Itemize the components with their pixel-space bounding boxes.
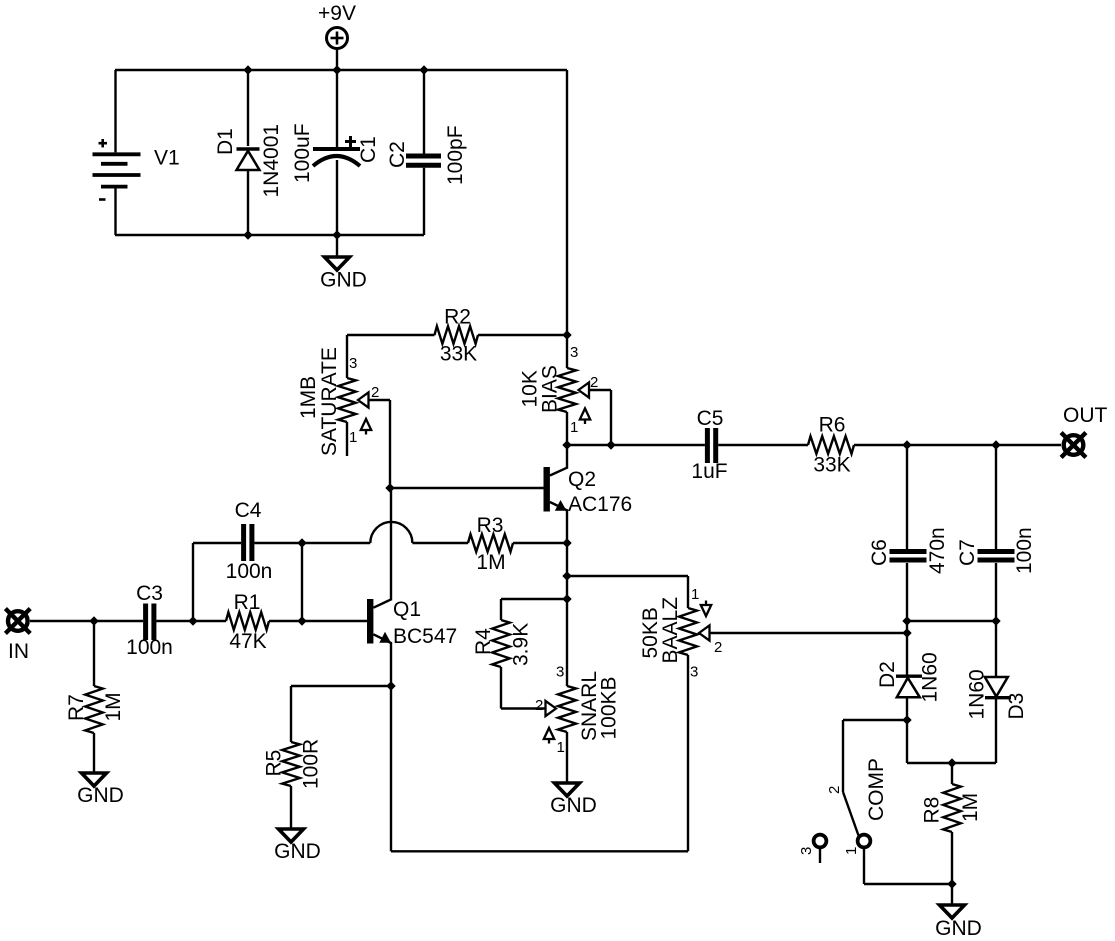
svg-text:100n: 100n (1013, 527, 1036, 574)
junction R1-Q1 base node (297, 616, 306, 625)
svg-text:3: 3 (349, 355, 357, 372)
wire R4 bottom (500, 667, 502, 709)
svg-text:100uF: 100uF (291, 123, 314, 183)
wire D1 bottom (247, 170, 249, 235)
resistor R4 3.9K (472, 620, 533, 667)
svg-text:1: 1 (843, 847, 860, 855)
port OUT (1061, 404, 1107, 457)
svg-text:1N60: 1N60 (919, 652, 942, 702)
capacitor C3 100n (126, 582, 173, 659)
junction C6-D2 node (902, 616, 911, 625)
resistor R2 33K (435, 306, 479, 366)
wire C2 bottom (423, 168, 425, 235)
wire R4 top (500, 599, 502, 620)
diode D3 1N60 (966, 669, 1029, 719)
pin 2 label BIAS (590, 374, 598, 391)
wire battery bottom (114, 189, 116, 236)
wire SATURATE wiper right (369, 399, 390, 401)
capacitor C7 100n (956, 527, 1036, 574)
switch COMP pin1 contact (858, 835, 871, 848)
svg-text:1M: 1M (476, 551, 505, 574)
junction emitter-BAALZ node (562, 571, 571, 580)
wire bottom feedback rail (391, 850, 688, 852)
svg-text:470n: 470n (926, 527, 949, 574)
resistor R8 1M (921, 784, 983, 832)
pin 2 label COMP (826, 786, 843, 794)
wiper arrow SATURATE (358, 392, 369, 407)
junction C7-D3 node (991, 616, 1000, 625)
wire R5 top (290, 686, 292, 742)
wire bottom rail (115, 234, 424, 236)
wire BIAS wiper right (589, 389, 612, 391)
wire IN to C3 (30, 620, 143, 622)
svg-text:1: 1 (570, 419, 578, 436)
junction top rail D1 (243, 65, 252, 74)
svg-text:33K: 33K (813, 454, 850, 477)
junction R8-switch node (947, 879, 956, 888)
junction C6 top node (902, 440, 911, 449)
wire BAALZ wiper right (710, 632, 907, 634)
wire switch pin2 from D2 node (843, 719, 907, 721)
svg-text:1: 1 (557, 739, 565, 756)
junction D2-switch node (902, 715, 911, 724)
svg-text:D1: D1 (214, 128, 237, 155)
transistor Q2 AC176 (544, 467, 633, 516)
wire BAALZ pin1 (687, 576, 689, 608)
wire D1 top (247, 70, 249, 146)
svg-text:COMP: COMP (865, 758, 888, 821)
wire R1-C4 vertical (301, 543, 303, 621)
wire R2 right (478, 334, 567, 336)
pin 2 label SNARL (535, 697, 543, 714)
svg-text:100pF: 100pF (444, 125, 467, 185)
wire +9V to top rail (336, 48, 338, 70)
svg-text:1: 1 (691, 586, 699, 603)
wire BAALZ pin3 down (687, 655, 689, 851)
wire Q1 collector up (390, 488, 392, 600)
wiper arrow BAALZ (699, 625, 710, 640)
direction arrow BAALZ (701, 601, 711, 617)
wire emitter node down (566, 543, 568, 686)
svg-text:GND: GND (77, 784, 124, 807)
direction arrow SNARL (544, 728, 554, 744)
wiper arrow SNARL (546, 701, 557, 716)
svg-text:D3: D3 (1005, 693, 1028, 720)
direction arrow BIAS (580, 409, 590, 425)
wire switch pin2 down (842, 720, 844, 792)
pin 1 label BAALZ (691, 586, 699, 603)
resistor R6 33K (808, 414, 854, 477)
wire node to C5 (567, 444, 705, 446)
svg-text:GND: GND (274, 840, 321, 863)
junction R2-BIAS node (562, 330, 571, 339)
svg-text:SATURATE: SATURATE (318, 347, 341, 456)
wire GND stub below rail (336, 235, 338, 257)
svg-text:2: 2 (535, 697, 543, 714)
resistor R5 100R (263, 739, 323, 789)
junction C3-C4 node (188, 616, 197, 625)
junction C4-R1 vertical top (297, 538, 306, 547)
wire C1 bottom (336, 160, 338, 235)
svg-text:GND: GND (935, 917, 982, 940)
svg-text:47K: 47K (229, 630, 266, 653)
junction top rail +9V (332, 65, 341, 74)
svg-text:2: 2 (826, 786, 843, 794)
wire C7 top (995, 445, 997, 549)
svg-text:C6: C6 (868, 539, 891, 566)
port IN (5, 609, 30, 663)
wire R3 right (513, 542, 567, 544)
wire switch pin1 down (863, 849, 865, 885)
junction bottom rail D1 (243, 230, 252, 239)
wire GND stub (R8) (951, 884, 953, 905)
svg-text:R7: R7 (65, 694, 88, 721)
wire C1 top (336, 70, 338, 147)
junction IN-R7 node (89, 616, 98, 625)
svg-text:C3: C3 (136, 582, 163, 605)
svg-text:+9V: +9V (318, 2, 356, 25)
wire right rail down to R2 node (566, 70, 568, 335)
junction Q2 base node (385, 483, 394, 492)
svg-text:C1: C1 (357, 136, 380, 163)
junction BIAS wiper node (606, 440, 615, 449)
wire Q2 base (390, 487, 544, 489)
ground GND (R8) (935, 905, 982, 940)
capacitor C2 100pF (386, 125, 467, 185)
svg-text:OUT: OUT (1063, 404, 1108, 427)
svg-text:C2: C2 (386, 141, 409, 168)
junction bottom rail C1 (332, 230, 341, 239)
svg-text:AC176: AC176 (568, 493, 632, 516)
svg-text:C7: C7 (956, 539, 979, 566)
capacitor C1 100uF (electrolytic) (291, 123, 380, 183)
svg-text:V1: V1 (154, 147, 180, 170)
wire to R4 (501, 598, 567, 600)
wire C2 top (423, 70, 425, 154)
wire to BAALZ top (567, 575, 688, 577)
wire battery top (114, 70, 116, 152)
wire D3 bottom (995, 699, 997, 763)
diode D2 1N60 (876, 652, 942, 702)
wire D2-D3 bottom link (907, 762, 996, 764)
wire switch pin1 to R8 node (864, 883, 952, 885)
svg-text:1M: 1M (959, 793, 982, 822)
svg-text:100R: 100R (300, 739, 323, 789)
junction Q1 emitter node (386, 681, 395, 690)
svg-text:R6: R6 (819, 414, 846, 437)
junction BAALZ wiper-D2 node (902, 628, 911, 637)
svg-text:R1: R1 (234, 591, 261, 614)
svg-text:R8: R8 (921, 797, 944, 824)
svg-text:IN: IN (8, 640, 29, 663)
ground GND (SNARL) (550, 783, 597, 817)
capacitor C5 1uF (691, 407, 727, 483)
junction R3-emitter node (562, 538, 571, 547)
junction R8 top node (947, 758, 956, 767)
svg-text:3: 3 (690, 664, 698, 681)
junction BIAS pin1 node (562, 440, 571, 449)
wire C6 bottom (906, 563, 908, 675)
potentiometer SNARL 100KB (558, 671, 621, 741)
svg-text:C4: C4 (235, 499, 262, 522)
pin 1 label BIAS (570, 419, 578, 436)
direction arrow SATURATE (361, 419, 371, 435)
wire BIAS wiper down (610, 390, 612, 445)
wire Q1 emitter down (390, 642, 392, 686)
svg-text:GND: GND (320, 269, 367, 292)
svg-text:Q2: Q2 (568, 468, 596, 491)
svg-text:2: 2 (371, 384, 379, 401)
wire R8 top (951, 763, 953, 784)
wire C5 to R6 (718, 444, 808, 446)
wire Q2 collector (566, 445, 568, 469)
wire Q2 emitter down (566, 509, 568, 543)
wire SATURATE pin3 (346, 335, 348, 378)
wire C4 right (254, 542, 370, 544)
battery V1 (93, 139, 180, 200)
label COMP (865, 758, 888, 821)
svg-text:33K: 33K (440, 343, 477, 366)
wire SATURATE wiper down (389, 400, 391, 488)
transistor Q1 BC547 (367, 598, 457, 648)
+9V power symbol (318, 2, 356, 49)
wire R4 to SNARL wiper (501, 707, 546, 709)
resistor R1 47K (226, 591, 269, 653)
wire Q1 emitter to bottom rail (390, 686, 392, 851)
pin 3 label COMP (798, 847, 815, 855)
wire R8 bottom (951, 832, 953, 884)
wire crossover hump (370, 522, 412, 543)
svg-text:R2: R2 (444, 306, 471, 329)
svg-text:3: 3 (570, 344, 578, 361)
capacitor C6 470n (868, 527, 949, 574)
pin 3 label BIAS (570, 344, 578, 361)
wire BIAS pin3 (566, 335, 568, 368)
svg-text:100n: 100n (126, 636, 173, 659)
switch COMP lever (843, 792, 859, 836)
wire R6 to OUT (854, 444, 1061, 446)
svg-text:GND: GND (550, 794, 597, 817)
capacitor C4 100n (226, 499, 273, 583)
wire C7 bottom (995, 563, 997, 677)
pin 3 label BAALZ (690, 664, 698, 681)
svg-text:R4: R4 (472, 628, 495, 655)
svg-text:3.9K: 3.9K (510, 623, 533, 666)
pin 2 label SATURATE (371, 384, 379, 401)
svg-text:2: 2 (590, 374, 598, 391)
wire C6-C7 link (907, 620, 996, 622)
svg-text:2: 2 (714, 639, 722, 656)
svg-text:1: 1 (349, 429, 357, 446)
wire C4 left (193, 542, 241, 544)
pin 1 label COMP (843, 847, 860, 855)
svg-text:1uF: 1uF (691, 460, 727, 483)
diode D1 (214, 124, 283, 198)
wire top rail (115, 69, 567, 71)
svg-text:3: 3 (798, 847, 815, 855)
wire BIAS pin1 (566, 412, 568, 445)
pin 3 label SATURATE (349, 355, 357, 372)
resistor R7 1M (65, 686, 125, 733)
wire hump to R3 (412, 542, 468, 544)
wire SATURATE pin1 stub (346, 422, 348, 456)
svg-text:100KB: 100KB (598, 676, 621, 739)
wire C3 right (156, 620, 226, 622)
junction emitter-R4 node (562, 594, 571, 603)
ground GND (power) (320, 257, 367, 292)
ground GND (R7) (77, 773, 124, 807)
wire C6 top (906, 445, 908, 549)
svg-text:1N60: 1N60 (966, 669, 989, 719)
pin 2 label BAALZ (714, 639, 722, 656)
potentiometer BAALZ 50KB (639, 597, 697, 664)
switch COMP pin3 contact (814, 835, 827, 863)
wire R7 top (93, 621, 95, 686)
svg-text:R5: R5 (263, 750, 286, 777)
svg-text:BIAS: BIAS (539, 365, 562, 413)
svg-text:D2: D2 (876, 661, 899, 688)
potentiometer BIAS 10K (519, 365, 577, 413)
svg-text:100n: 100n (226, 560, 273, 583)
ground GND (R5) (274, 829, 321, 863)
svg-text:Q1: Q1 (393, 598, 421, 621)
wiper arrow BIAS (579, 382, 590, 397)
svg-text:1MB: 1MB (297, 376, 320, 419)
wire R5 bottom (290, 786, 292, 829)
svg-text:BC547: BC547 (393, 625, 457, 648)
wire D2 bottom (906, 697, 908, 763)
junction C7 top node (991, 440, 1000, 449)
wire R7 bottom (93, 733, 95, 773)
junction top rail C2 (419, 65, 428, 74)
wire R1 right (269, 620, 367, 622)
pin 1 label SNARL (557, 739, 565, 756)
resistor R3 1M (468, 514, 513, 574)
potentiometer SATURATE 1MB (297, 347, 356, 456)
svg-text:1M: 1M (102, 692, 125, 721)
pin 1 label SATURATE (349, 429, 357, 446)
svg-text:R3: R3 (477, 514, 504, 537)
svg-text:BAALZ: BAALZ (659, 597, 682, 664)
wire R2 left (347, 334, 435, 336)
wire SNARL bottom (566, 732, 568, 783)
svg-text:1N4001: 1N4001 (260, 124, 283, 198)
svg-text:3: 3 (556, 664, 564, 681)
svg-text:C5: C5 (697, 407, 724, 430)
wire emitter to R5 (291, 685, 391, 687)
wire C4 left down (192, 543, 194, 621)
pin 3 label SNARL (556, 664, 564, 681)
